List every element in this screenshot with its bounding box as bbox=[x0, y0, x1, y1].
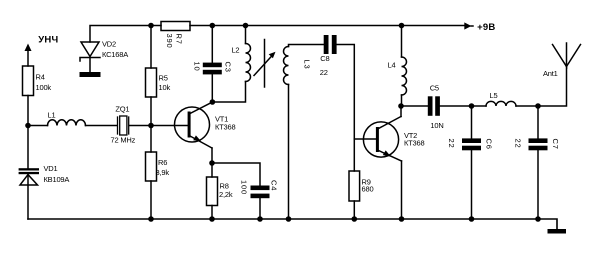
wire rail to L4 bbox=[401, 26, 403, 58]
label L5 bbox=[490, 91, 498, 100]
label R9 680 bbox=[362, 178, 374, 194]
ground bar under VD2 bbox=[80, 72, 101, 77]
inductor L4 bbox=[402, 57, 407, 95]
resistor R7 bbox=[161, 22, 190, 31]
wire ZQ1 to VT1 base bbox=[129, 125, 187, 127]
label УНЧ bbox=[38, 34, 58, 45]
wire R9 to bottom rail bbox=[353, 201, 355, 219]
wire L4 to collector node VT2 bbox=[401, 95, 403, 106]
svg-text:L3: L3 bbox=[303, 60, 312, 70]
svg-text:КТ368: КТ368 bbox=[215, 123, 235, 132]
node bottom rail VT2 emitter bbox=[399, 216, 405, 222]
node bottom rail L3 bbox=[286, 216, 292, 222]
svg-text:390: 390 bbox=[165, 34, 174, 49]
wire rail to R5 bbox=[150, 26, 152, 69]
wire R4 to node A bbox=[27, 96, 29, 126]
svg-text:680: 680 bbox=[362, 185, 374, 194]
wire C5 to C6 node bbox=[440, 105, 486, 107]
svg-text:C3: C3 bbox=[223, 62, 232, 73]
wire top +9V rail left section bbox=[90, 26, 161, 43]
label 72 MHz bbox=[111, 136, 136, 145]
svg-text:КС168А: КС168А bbox=[102, 50, 128, 59]
wire collector VT2 to C5 bbox=[401, 105, 428, 107]
svg-text:C6: C6 bbox=[485, 139, 494, 150]
label VT2 КТ368 bbox=[404, 131, 424, 148]
wire rail to C3 bbox=[211, 26, 213, 63]
svg-text:L4: L4 bbox=[388, 60, 396, 69]
wire C4 to bottom rail bbox=[259, 198, 261, 219]
label 100 C4 rotated bbox=[240, 180, 279, 195]
node A junction R4/L1/VD1 bbox=[25, 123, 31, 129]
varicap VD1 bbox=[19, 168, 39, 185]
capacitor C8 bbox=[324, 35, 337, 54]
label ZQ1 bbox=[115, 105, 129, 114]
svg-text:22: 22 bbox=[514, 139, 523, 149]
label +9B bbox=[477, 22, 495, 33]
wire C8 to base column bbox=[337, 45, 355, 172]
label VD1 КВ109А bbox=[44, 164, 70, 184]
transistor VT2 bbox=[363, 106, 401, 219]
label L4 bbox=[388, 60, 396, 69]
inductor L2 bbox=[246, 44, 251, 82]
УНЧ output arrow bbox=[25, 44, 32, 67]
transistor VT1 bbox=[175, 102, 213, 163]
wire L5 to C7 node bbox=[516, 105, 538, 107]
svg-text:КТ368: КТ368 bbox=[404, 139, 424, 148]
node bottom rail R6 bbox=[148, 216, 154, 222]
label Ant1 bbox=[543, 69, 558, 78]
label L3 rotated bbox=[303, 60, 312, 70]
svg-text:22: 22 bbox=[447, 139, 456, 149]
capacitor C7 bbox=[529, 138, 548, 150]
resistor R4 bbox=[23, 66, 34, 96]
wire C7 node to antenna bbox=[538, 67, 567, 107]
wire R8 to bottom rail bbox=[211, 206, 213, 220]
wire L3 bottom to rail bbox=[288, 85, 290, 220]
node C6 top junction bbox=[469, 103, 475, 109]
capacitor C5 bbox=[428, 96, 440, 116]
inductor L5 bbox=[486, 101, 516, 106]
node top rail L2 bbox=[243, 23, 249, 29]
resistor R5 bbox=[146, 68, 157, 97]
label L1 bbox=[48, 111, 56, 120]
svg-text:R7: R7 bbox=[175, 34, 184, 45]
wire base tap VT2 bbox=[354, 138, 376, 140]
svg-text:C5: C5 bbox=[430, 84, 439, 93]
node top rail R5 bbox=[148, 23, 154, 29]
label R5 10k bbox=[159, 74, 171, 93]
resistor R8 bbox=[207, 177, 218, 206]
svg-text:R5: R5 bbox=[159, 74, 168, 83]
wire VD2 to ground bbox=[89, 58, 91, 73]
resistor R9 bbox=[349, 171, 360, 201]
svg-text:КВ109А: КВ109А bbox=[44, 175, 70, 184]
svg-text:10: 10 bbox=[193, 62, 202, 72]
node bottom rail C6 bbox=[469, 216, 475, 222]
svg-text:100k: 100k bbox=[36, 83, 52, 92]
ground symbol bottom right bbox=[548, 229, 567, 234]
svg-text:VD2: VD2 bbox=[102, 40, 116, 49]
svg-text:R8: R8 bbox=[220, 181, 229, 190]
svg-text:10N: 10N bbox=[430, 121, 443, 130]
node collector VT1 junction bbox=[210, 99, 216, 105]
capacitor C4 bbox=[251, 186, 270, 199]
wire VD1 branch bbox=[27, 126, 29, 169]
label 10 C3 rotated bbox=[193, 62, 233, 73]
svg-text:10k: 10k bbox=[159, 83, 171, 92]
svg-text:C4: C4 bbox=[270, 180, 279, 191]
+9V arrowhead bbox=[464, 22, 473, 29]
label 22 C6 rotated bbox=[447, 139, 494, 150]
svg-text:ZQ1: ZQ1 bbox=[115, 105, 129, 114]
inductor L1 bbox=[48, 120, 86, 126]
svg-text:3,9k: 3,9k bbox=[156, 168, 170, 177]
wire node A to L1 bbox=[28, 125, 48, 127]
label R6 3,9k bbox=[156, 158, 170, 177]
wire C6 branch top bbox=[471, 106, 473, 138]
wire VD1 to bottom rail bbox=[27, 175, 29, 220]
wire C3 to collector node bbox=[211, 74, 213, 102]
inductor L3 bbox=[284, 47, 289, 85]
wire L3 top to C8 bbox=[289, 45, 324, 47]
svg-text:УНЧ: УНЧ bbox=[38, 34, 58, 45]
capacitor C6 bbox=[462, 138, 481, 150]
node emitter VT1 junction bbox=[209, 160, 215, 166]
resistor R6 bbox=[146, 152, 157, 181]
crystal ZQ1 bbox=[118, 116, 129, 135]
label R4 100k bbox=[36, 73, 52, 93]
svg-text:C8: C8 bbox=[320, 54, 329, 63]
svg-text:100: 100 bbox=[240, 180, 249, 195]
wire C7 branch top bbox=[537, 106, 539, 138]
label R8 2,2k bbox=[219, 181, 233, 199]
node junction ZQ1/R5/R6 bbox=[148, 123, 154, 129]
label 10N bbox=[430, 121, 443, 130]
node bottom rail C7 bbox=[535, 216, 541, 222]
wire top +9V rail right section bbox=[190, 25, 465, 27]
svg-text:+9В: +9В bbox=[477, 22, 495, 33]
tuning arrow bbox=[254, 52, 276, 76]
wire base node to R6 bbox=[150, 126, 152, 153]
wire C7 to bottom rail bbox=[537, 150, 539, 219]
label R7 390 rotated bbox=[165, 34, 184, 49]
svg-text:L1: L1 bbox=[48, 111, 56, 120]
wire L1 to ZQ1 bbox=[86, 125, 118, 127]
svg-text:22: 22 bbox=[320, 68, 328, 77]
wire rail to L2 bbox=[245, 26, 247, 44]
capacitor C3 bbox=[203, 63, 222, 75]
svg-text:L2: L2 bbox=[231, 46, 239, 55]
wire emitter node to C4 bbox=[212, 163, 260, 186]
node bottom rail R9 bbox=[352, 216, 358, 222]
wire C6 to bottom rail bbox=[471, 150, 473, 219]
node bottom rail C4 bbox=[257, 216, 263, 222]
wire bottom ground rail bbox=[28, 219, 557, 229]
wire L2 bottom to collector node bbox=[212, 82, 245, 103]
svg-text:Ant1: Ant1 bbox=[543, 69, 558, 78]
label C8 22 bbox=[320, 54, 330, 77]
svg-text:R4: R4 bbox=[36, 73, 45, 82]
antenna Ant1 bbox=[553, 43, 581, 67]
label VD2 КС168А bbox=[102, 40, 128, 60]
svg-text:2,2k: 2,2k bbox=[219, 190, 233, 199]
transformer core line bbox=[264, 40, 266, 88]
wire R6 to bottom rail bbox=[150, 181, 152, 219]
label VT1 КТ368 bbox=[215, 115, 235, 132]
node bottom rail R8 bbox=[209, 216, 215, 222]
zener diode VD2 bbox=[80, 42, 100, 61]
svg-text:72 MHz: 72 MHz bbox=[111, 136, 136, 145]
svg-text:C7: C7 bbox=[551, 139, 560, 150]
wire emitter node to R8 bbox=[211, 163, 213, 177]
node C7 top junction bbox=[535, 103, 541, 109]
label C5 bbox=[430, 84, 439, 93]
label L2 bbox=[231, 46, 239, 55]
node collector VT2 junction bbox=[398, 103, 404, 109]
svg-text:R6: R6 bbox=[158, 158, 167, 167]
wire R5 to base node bbox=[150, 97, 152, 126]
node top rail C3 bbox=[210, 23, 216, 29]
node top rail L4 bbox=[399, 23, 405, 29]
svg-text:L5: L5 bbox=[490, 91, 498, 100]
label 22 C7 rotated bbox=[514, 139, 561, 150]
svg-text:VD1: VD1 bbox=[44, 164, 58, 173]
